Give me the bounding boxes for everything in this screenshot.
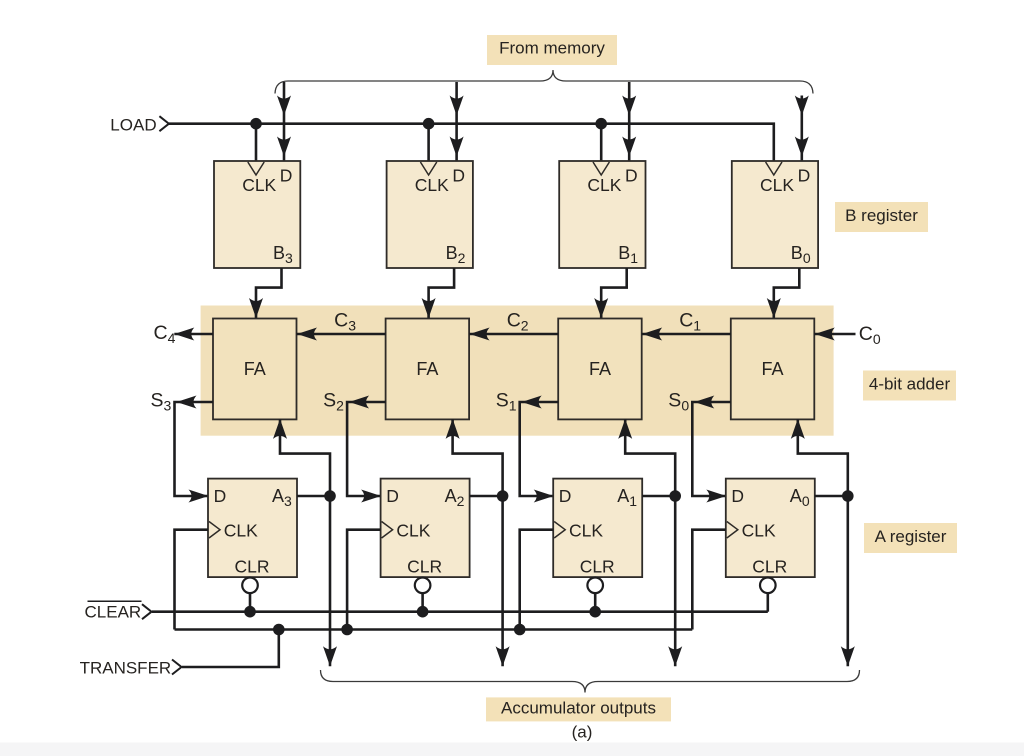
- svg-text:CLK: CLK: [742, 521, 776, 541]
- svg-text:CLR: CLR: [752, 557, 787, 577]
- svg-text:D: D: [731, 486, 744, 506]
- svg-text:FA: FA: [416, 359, 438, 379]
- svg-text:B register: B register: [845, 206, 918, 225]
- svg-text:D: D: [798, 165, 811, 185]
- svg-text:FA: FA: [761, 359, 783, 379]
- svg-text:CLR: CLR: [407, 557, 442, 577]
- svg-text:D: D: [386, 486, 399, 506]
- svg-text:CLK: CLK: [587, 175, 621, 195]
- svg-text:CLK: CLK: [242, 175, 276, 195]
- svg-text:D: D: [280, 165, 293, 185]
- svg-text:CLR: CLR: [235, 557, 270, 577]
- svg-text:CLK: CLK: [415, 175, 449, 195]
- svg-text:CLK: CLK: [569, 521, 603, 541]
- svg-text:From memory: From memory: [499, 39, 605, 58]
- svg-text:D: D: [625, 165, 638, 185]
- svg-text:CLEAR: CLEAR: [85, 602, 142, 621]
- svg-text:TRANSFER: TRANSFER: [80, 658, 172, 677]
- svg-text:4-bit adder: 4-bit adder: [869, 375, 951, 394]
- svg-text:D: D: [214, 486, 227, 506]
- svg-text:LOAD: LOAD: [110, 116, 156, 135]
- svg-text:CLR: CLR: [580, 557, 615, 577]
- svg-text:CLK: CLK: [760, 175, 794, 195]
- svg-text:(a): (a): [572, 723, 593, 742]
- svg-text:FA: FA: [589, 359, 611, 379]
- svg-text:CLK: CLK: [396, 521, 430, 541]
- svg-text:D: D: [452, 165, 465, 185]
- svg-text:CLK: CLK: [224, 521, 258, 541]
- svg-text:D: D: [559, 486, 572, 506]
- svg-text:FA: FA: [244, 359, 266, 379]
- svg-text:Accumulator outputs: Accumulator outputs: [501, 699, 656, 718]
- svg-text:A register: A register: [875, 527, 947, 546]
